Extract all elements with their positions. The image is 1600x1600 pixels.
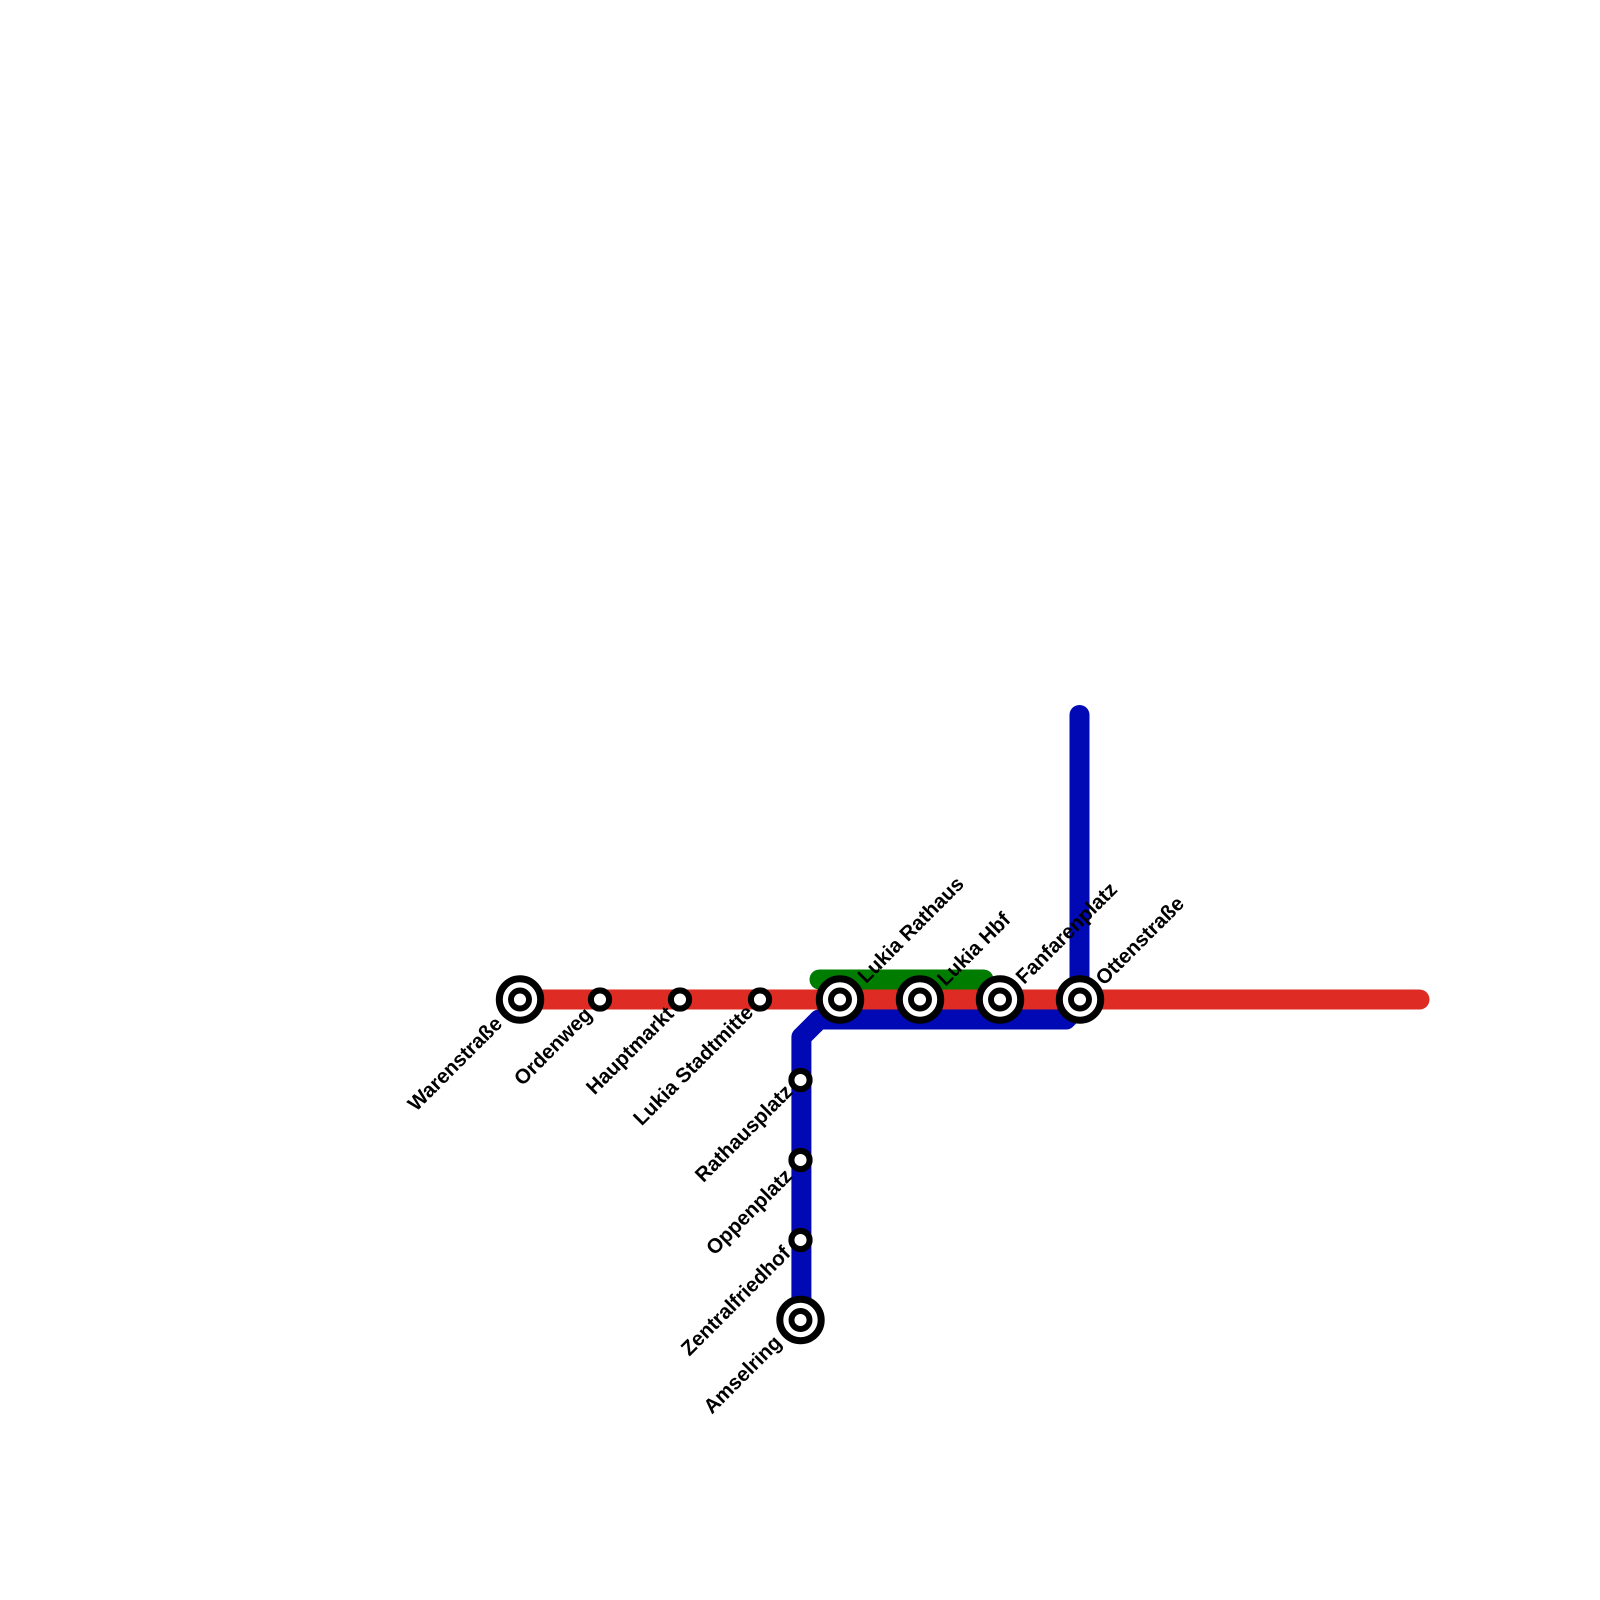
station Ordenweg — [591, 990, 609, 1008]
blue metro line (north branch, east-west trunk, south branch to Amselring) — [801, 715, 1079, 1320]
interchange station Fanfarenplatz — [979, 979, 1020, 1020]
interchange station Warenstrasse — [499, 979, 540, 1020]
interchange station Lukia Rathaus — [819, 979, 860, 1020]
red metro line (Warenstrasse - Ottenstrasse horizontal trunk) — [520, 990, 1420, 1010]
interchange station Lukia Hbf — [899, 979, 940, 1020]
station Lukia Stadtmitte — [751, 990, 769, 1008]
station Hauptmarkt — [671, 990, 689, 1008]
station Oppenplatz — [791, 1151, 809, 1169]
station Rathausplatz — [791, 1071, 809, 1089]
interchange station Amselring — [780, 1299, 821, 1340]
station Zentralfriedhof — [791, 1231, 809, 1249]
interchange station Ottenstrasse — [1059, 979, 1100, 1020]
green metro line (Lukia Rathaus - Fanfarenplatz) — [820, 970, 984, 990]
